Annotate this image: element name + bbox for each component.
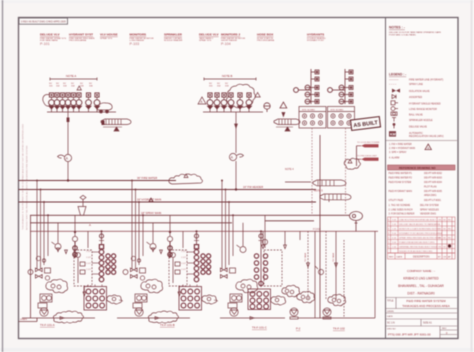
legend row ball valve xyxy=(391,112,397,115)
junction dot DV-2 riser at H2 xyxy=(235,188,237,190)
svg-text:HYD SCHED: HYD SCHED xyxy=(331,109,344,111)
wire: riser c1 xyxy=(221,181,223,270)
svg-text:MONITORS 2: MONITORS 2 xyxy=(221,33,240,37)
wire: fire water header H2 xyxy=(19,185,317,189)
fire monitor M-4 xyxy=(285,168,346,186)
svg-text:TO PROCESS UNIT: TO PROCESS UNIT xyxy=(357,155,378,157)
wire: suction line c xyxy=(220,317,285,319)
svg-text:RD: RD xyxy=(448,229,452,231)
svg-text:UTILITY P&ID: UTILITY P&ID xyxy=(389,200,404,202)
equipment header column 8 xyxy=(257,33,275,43)
wire: header stub H5b xyxy=(265,220,314,222)
legend row isolation valve xyxy=(392,89,400,93)
solenoid valve SV-203 xyxy=(221,93,227,112)
svg-text:RD: RD xyxy=(448,238,452,240)
instrument ball c xyxy=(240,247,246,253)
svg-text:SPRAY RING REVISED AS NOTED HE: SPRAY RING REVISED AS NOTED HERE xyxy=(399,237,441,240)
tank unit TK-101-A xyxy=(22,180,123,324)
feeder valve HR-1 xyxy=(294,88,299,93)
solenoid valve SV-206 xyxy=(246,93,252,112)
manifold header pipe xyxy=(47,111,116,113)
pump PC-2 xyxy=(290,308,298,316)
svg-text:16" FW HEADER: 16" FW HEADER xyxy=(243,185,263,189)
svg-text:RECIRCULATION VALVE (ARV): RECIRCULATION VALVE (ARV) xyxy=(409,135,444,138)
svg-text:HYDRANT POST ADDED PROCESS ARE: HYDRANT POST ADDED PROCESS AREA xyxy=(399,232,442,235)
svg-text:3. SPR = SPRAY: 3. SPR = SPRAY xyxy=(389,151,407,154)
spine wire xyxy=(344,69,346,104)
wire: tree feed xyxy=(260,231,262,251)
svg-text:18" SPRAY MAIN: 18" SPRAY MAIN xyxy=(141,211,161,215)
svg-text:BHAVANREL , TAL - GUHAGAR: BHAVANREL , TAL - GUHAGAR xyxy=(398,284,444,288)
solenoid valve SV-103 xyxy=(60,93,66,112)
svg-text:P&ID FIRE WATER P1: P&ID FIRE WATER P1 xyxy=(389,172,413,175)
svg-text:HYDRANT SINGLE HEADED: HYDRANT SINGLE HEADED xyxy=(409,103,441,106)
wire: riser c2 xyxy=(225,190,227,270)
wire: riser to off-page tags xyxy=(320,135,357,318)
manifold header pipe xyxy=(203,111,263,113)
svg-text:TO TANK: TO TANK xyxy=(304,252,307,262)
svg-text:AREA DWG: AREA DWG xyxy=(424,194,437,197)
equipment header column 7 xyxy=(221,33,246,46)
riser from DV-1 to fire water header xyxy=(67,112,69,154)
svg-text:TK-F-101-C: TK-F-101-C xyxy=(252,326,267,330)
svg-text:A: A xyxy=(89,223,91,227)
equipment header column 5 xyxy=(164,33,183,43)
wire: spray main header H4 xyxy=(30,211,350,215)
dimension bracket NOTE A xyxy=(50,78,97,80)
svg-text:DEL FW SYSTEM: DEL FW SYSTEM xyxy=(420,205,439,207)
svg-text:VENDOR DWG: VENDOR DWG xyxy=(420,214,436,216)
reducer between H3 and H4 xyxy=(78,195,86,215)
cloud foam pot FP-2 xyxy=(328,294,346,306)
svg-text:TO TANK: TO TANK xyxy=(332,252,335,262)
svg-text:NOTE 5: NOTE 5 xyxy=(314,189,323,192)
svg-text:000-PT-WR-6002: 000-PT-WR-6002 xyxy=(424,173,443,175)
svg-text:DELUGE VLV: DELUGE VLV xyxy=(199,33,219,37)
fire monitor M-1 xyxy=(97,103,112,110)
equipment header column 6 xyxy=(199,33,219,43)
pump P-D xyxy=(323,308,331,316)
svg-text:DELUGE VALVE: DELUGE VALVE xyxy=(409,125,427,128)
svg-text:————: ———— xyxy=(389,78,399,81)
equipment header column 2 P-102 xyxy=(69,33,95,43)
svg-text:4. ALARM: 4. ALARM xyxy=(389,157,399,160)
svg-text:2. HM = HYDRANT MAIN: 2. HM = HYDRANT MAIN xyxy=(389,147,416,150)
abbreviation list 2 xyxy=(389,204,440,216)
legend row monitor sym xyxy=(391,107,398,111)
svg-text:DELUGE VLV: DELUGE VLV xyxy=(40,33,60,37)
svg-text:DELUGE VALVE ADDED TK FARM ARE: DELUGE VALVE ADDED TK FARM AREA xyxy=(399,223,441,226)
svg-text:COMPANY NAME : -: COMPANY NAME : - xyxy=(407,269,435,273)
title block field rows xyxy=(386,313,458,326)
legend row KM box xyxy=(389,131,396,136)
dashed instrument box c xyxy=(264,250,282,286)
solenoid valve SV-105 xyxy=(71,93,77,112)
svg-text:SPRINKLER NOZZLE: SPRINKLER NOZZLE xyxy=(409,119,433,122)
svg-text:NOZZLE HEADER: NOZZLE HEADER xyxy=(164,39,183,42)
wire: riser d3 xyxy=(325,231,327,300)
svg-text:A: A xyxy=(427,146,429,150)
hydrant schedule table T-1 xyxy=(299,107,326,129)
deluge valve station DV-1 xyxy=(43,74,131,181)
svg-text:TK-F-101-A: TK-F-101-A xyxy=(40,323,55,327)
svg-text:000-PT-WR-6005: 000-PT-WR-6005 xyxy=(424,191,443,193)
svg-text:SPRINKLER: SPRINKLER xyxy=(164,33,183,37)
svg-text:36" FIRE WATER: 36" FIRE WATER xyxy=(137,176,157,180)
reference drawing table xyxy=(388,165,456,202)
svg-text:P-104: P-104 xyxy=(221,42,231,46)
svg-text:LINE ROUTING MODIFIED AS BUILT: LINE ROUTING MODIFIED AS BUILT xyxy=(399,219,437,222)
svg-text:RD: RD xyxy=(448,220,452,222)
svg-text:LEGEND : -: LEGEND : - xyxy=(389,73,406,77)
wire: dashed drop from T-2 xyxy=(345,128,347,215)
hydrant point risers between headers xyxy=(262,231,300,248)
revision cloud c2 xyxy=(282,285,300,297)
svg-text:DRG NO: DRG NO xyxy=(387,328,396,330)
wire: riser d1 xyxy=(307,231,309,300)
svg-text:MONITOR LOCATION REVISED NOTED: MONITOR LOCATION REVISED NOTED xyxy=(399,228,440,231)
svg-text:ASSORTED: ASSORTED xyxy=(409,96,422,99)
svg-text:P&ID FIRE WATER SYSTEM: P&ID FIRE WATER SYSTEM xyxy=(406,299,446,303)
wire: west feed riser xyxy=(30,215,32,318)
valve pair c xyxy=(220,268,227,272)
scan left edge line xyxy=(2,0,4,352)
flag A right of DV-2 xyxy=(255,93,260,98)
nozzle rings mid column xyxy=(305,85,310,90)
company name block xyxy=(398,269,444,296)
svg-text:1. FW = FIRE WATER: 1. FW = FIRE WATER xyxy=(389,143,412,146)
svg-text:SC 1:N: SC 1:N xyxy=(387,322,395,325)
svg-text:PROCESS AREA: PROCESS AREA xyxy=(257,39,275,42)
svg-text:DRAIN: DRAIN xyxy=(20,318,27,321)
tank unit TK-101-C xyxy=(220,180,300,320)
wire: fire water header H1 xyxy=(19,176,177,180)
spray grid box C xyxy=(248,289,271,310)
legend row hydrant sym xyxy=(391,101,398,105)
equipment header column 3 xyxy=(100,33,118,40)
solenoid valve SV-107 xyxy=(94,93,100,112)
wire: riser d4 xyxy=(335,231,337,300)
svg-text:DELUGE VLVS FOR TANK FARM OPER: DELUGE VLVS FOR TANK FARM OPERATED SAFE xyxy=(389,31,442,34)
loop seal at left of DV-1 xyxy=(43,95,50,107)
flag A left of DV-2 xyxy=(198,97,206,104)
fire monitor M-5 xyxy=(314,189,351,202)
revision cloud mid-right xyxy=(344,158,360,169)
revision box top-left xyxy=(19,18,68,24)
svg-text:DESCRIPTION: DESCRIPTION xyxy=(413,255,430,258)
svg-text:TITLE: TITLE xyxy=(387,300,394,303)
svg-text:WITHOUT WRITTEN PERMISSION AL: WITHOUT WRITTEN PERMISSION ALL RIGHTS RE… xyxy=(26,146,29,230)
svg-text:THIS DRAWING IS THE PROPERTY O: THIS DRAWING IS THE PROPERTY OF THE COMP… xyxy=(22,124,25,230)
svg-text:HYDRANT POST: HYDRANT POST xyxy=(307,39,325,42)
svg-text:NOTE B: NOTE B xyxy=(222,74,233,78)
spray nozzle tree C xyxy=(254,251,267,287)
equipment header column 4 xyxy=(130,33,155,46)
svg-text:DATE: DATE xyxy=(387,315,393,318)
svg-text:BALL VALVE: BALL VALVE xyxy=(409,114,423,117)
svg-text:P-103: P-103 xyxy=(130,42,140,46)
solenoid valve SV-102 xyxy=(54,93,60,112)
svg-text:SPRAY LINE: SPRAY LINE xyxy=(409,83,423,86)
instrument ball d xyxy=(318,269,323,274)
svg-text:SPRAY NOZZLES: SPRAY NOZZLES xyxy=(420,208,439,211)
svg-text:SPRAY SYS: SPRAY SYS xyxy=(199,39,212,42)
motor valve MOV-2 at manifold end xyxy=(264,102,287,116)
svg-text:2. LINE SIZES IN INCH: 2. LINE SIZES IN INCH xyxy=(389,209,413,211)
legend row sprinkler xyxy=(392,118,396,122)
left margin rotated note text xyxy=(22,124,29,230)
tag labels row xyxy=(49,83,93,87)
junction dot DV-1 riser at H1 xyxy=(67,179,69,181)
svg-text:PTS) 000 JPT-WR JPT 6001-0: PTS) 000 JPT-WR JPT 6001-00 xyxy=(388,333,431,337)
tag labels row xyxy=(209,83,229,87)
svg-text:P-2: P-2 xyxy=(296,327,301,331)
svg-text:NOTE 4: NOTE 4 xyxy=(285,168,294,171)
hydrant valve squares right column xyxy=(315,70,319,74)
svg-text:– – – –: – – – – xyxy=(389,83,397,86)
pump P-5 oval xyxy=(350,212,363,232)
branch wires xyxy=(311,71,315,73)
wire: riser c6 xyxy=(264,215,266,248)
svg-text:POINT AND LOCAL PANEL: POINT AND LOCAL PANEL xyxy=(389,34,417,37)
svg-text:REV: REV xyxy=(442,328,447,330)
svg-text:HYDRANTS: HYDRANTS xyxy=(307,33,324,37)
abbreviation list xyxy=(389,143,416,160)
wire: riser d5 xyxy=(343,240,345,318)
wire: riser h3 xyxy=(299,231,301,240)
svg-text:000-PT-UT-6001: 000-PT-UT-6001 xyxy=(424,200,442,202)
svg-text:SPRAY SYS: SPRAY SYS xyxy=(100,37,113,40)
dimension bracket NOTE B xyxy=(204,78,256,80)
feeder valve HR-2 xyxy=(328,88,333,93)
svg-text:SIZE A1: SIZE A1 xyxy=(423,322,432,325)
svg-text:REFERENCE DRAWING NO: REFERENCE DRAWING NO xyxy=(399,166,436,170)
wire: riser d2 xyxy=(314,231,316,318)
hose reel tree HR-2 xyxy=(328,69,353,104)
wire: riser c4 xyxy=(232,215,234,256)
tank unit TK-101-B xyxy=(117,180,218,324)
nozzle rings mid column xyxy=(339,85,344,90)
solenoid valve SV-205 xyxy=(237,93,243,112)
solenoid valve SV-106b xyxy=(86,93,92,112)
wire: foam solution header H6 xyxy=(30,227,378,231)
panel divider line under legend xyxy=(386,140,458,142)
svg-text:DIST - RATNAGIRI: DIST - RATNAGIRI xyxy=(407,292,434,296)
right panel divider xyxy=(385,18,387,339)
svg-text:MONITORS: MONITORS xyxy=(130,33,147,37)
svg-text:P&ID FIRE WATER P2: P&ID FIRE WATER P2 xyxy=(389,177,413,180)
solenoid valve SV-201 xyxy=(207,93,213,112)
pump block c left xyxy=(230,294,242,302)
hose reel tree HR-1 xyxy=(294,69,319,104)
riser from DV-2 to fire water header xyxy=(235,112,237,153)
svg-text:LONG RANGE MONITOR: LONG RANGE MONITOR xyxy=(409,108,437,111)
solenoid valve SV-202 xyxy=(214,93,220,112)
arrow label d3 xyxy=(335,263,338,267)
revision cloud c1 xyxy=(236,279,258,293)
wire: header H5 xyxy=(30,223,232,227)
drain stub at left border xyxy=(19,318,38,322)
node FW-2 flow instrument xyxy=(229,153,243,160)
description row xyxy=(388,253,456,259)
spine wire xyxy=(310,69,312,104)
svg-text:ISOLATION VALVE: ISOLATION VALVE xyxy=(409,90,430,93)
cloud foam pot FP-1 xyxy=(297,291,315,303)
svg-text:P&ID FOAM SYSTEM: P&ID FOAM SYSTEM xyxy=(389,181,412,184)
wire: hydrant main header H3 xyxy=(19,198,317,202)
pump PC-1 xyxy=(230,308,238,316)
equipment header column 9 xyxy=(307,33,326,43)
wire: suction line xyxy=(298,317,375,319)
vent triangle on DV-1 xyxy=(77,86,81,90)
revision cloud at H1 end xyxy=(169,174,203,184)
off-page connector tag TO-2 xyxy=(357,155,379,160)
hydrant valve squares right column xyxy=(349,70,353,74)
node FW-1 flow instrument xyxy=(58,154,72,161)
svg-text:DATE: DATE xyxy=(397,255,403,258)
hydrant schedule table T-2 xyxy=(328,107,355,129)
svg-text:TO COOLING TOWER: TO COOLING TOWER xyxy=(357,142,380,144)
svg-text:VLV HOUSE: VLV HOUSE xyxy=(100,33,118,37)
warning triangle xyxy=(425,144,431,150)
fire monitor M-2 long range xyxy=(101,119,131,125)
revision cloud around SV-204..206 xyxy=(227,84,256,108)
wire: dashed drop from T-1 xyxy=(311,128,313,215)
svg-text:000-PT-WR-6004: 000-PT-WR-6004 xyxy=(424,182,443,184)
svg-text:NOTE A: NOTE A xyxy=(66,74,76,78)
svg-text:TANKAGES AND PROCESS AREA: TANKAGES AND PROCESS AREA xyxy=(402,304,449,308)
wire: riser h1 xyxy=(262,231,264,245)
svg-text:P&ID HYDRANT MAIN: P&ID HYDRANT MAIN xyxy=(389,190,413,193)
wire: riser c5 xyxy=(242,223,244,246)
solenoid valve SV-106 xyxy=(76,93,82,112)
AS BUILT stamp xyxy=(350,117,380,131)
svg-text:3. FOR DETAILS REFER: 3. FOR DETAILS REFER xyxy=(389,213,415,216)
svg-text:PROCESS AREA: PROCESS AREA xyxy=(69,39,87,42)
svg-text:KRIBHCO LNG LIMITED: KRIBHCO LNG LIMITED xyxy=(403,277,439,281)
svg-text:TK-F-102: TK-F-102 xyxy=(333,327,345,331)
equipment header column 1 P-101 xyxy=(40,33,67,46)
branch wires xyxy=(345,71,349,73)
wire: riser c3 xyxy=(228,202,230,265)
svg-text:HYDRANT SYST: HYDRANT SYST xyxy=(69,33,93,37)
svg-text:DRWN: DRWN xyxy=(387,311,394,313)
svg-text:0 REV AS BUILT DWG CHKD A: 0 REV AS BUILT DWG CHKD APPD 2005 xyxy=(21,20,66,23)
tank unit TK-102 partial xyxy=(297,231,375,319)
svg-text:GENERAL REVISION AS BUILT ISSU: GENERAL REVISION AS BUILT ISSUE xyxy=(399,246,438,249)
off-page connector tag TO-1 xyxy=(357,142,380,147)
svg-text:HYD SCHED: HYD SCHED xyxy=(302,109,315,111)
svg-text:000-PT-WR-6003: 000-PT-WR-6003 xyxy=(424,178,443,180)
svg-text:KM: KM xyxy=(390,132,396,136)
svg-text:HOSE BOX: HOSE BOX xyxy=(257,33,274,37)
solenoid valve SV-104 xyxy=(65,93,71,112)
svg-text:TK-F-101-B: TK-F-101-B xyxy=(160,323,175,327)
svg-text:NOTES : -: NOTES : - xyxy=(389,26,405,30)
junction dots xyxy=(221,180,223,182)
svg-text:FIRE WATER LINE (HYDRANT): FIRE WATER LINE (HYDRANT) xyxy=(409,78,443,81)
fire monitor M-3 xyxy=(274,119,300,125)
svg-text:ISSUED FOR AS BUILT RECORD: ISSUED FOR AS BUILT RECORD xyxy=(399,250,433,253)
wire: riser h2 xyxy=(284,231,286,245)
drawing number row xyxy=(440,326,457,339)
legend row check valve xyxy=(392,95,396,99)
svg-text:1. TAG NO SCHEME: 1. TAG NO SCHEME xyxy=(389,204,411,207)
solenoid valve SV-204 xyxy=(228,93,234,112)
svg-text:FOAM LINE ADDED AS BUILT DRG: FOAM LINE ADDED AS BUILT DRG xyxy=(399,241,435,244)
title box xyxy=(386,298,458,309)
svg-text:P-101: P-101 xyxy=(40,42,50,46)
solenoid valve SV-101 xyxy=(49,93,55,112)
svg-text:REV: REV xyxy=(389,256,394,258)
deluge valve station DV-2 xyxy=(198,74,300,190)
svg-text:FOAM: FOAM xyxy=(313,227,321,231)
revision history table xyxy=(388,217,456,253)
legend row deluge xyxy=(393,123,395,128)
svg-text:PLOT PLAN: PLOT PLAN xyxy=(424,185,437,188)
cloud c3 right of grid xyxy=(271,296,286,305)
arrow label d1 xyxy=(307,263,310,267)
